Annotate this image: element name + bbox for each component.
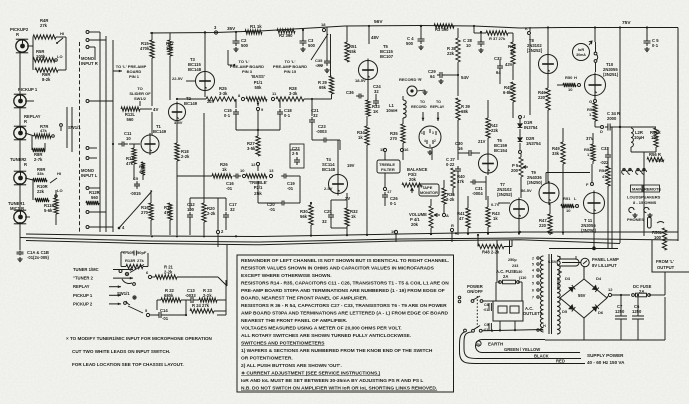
- wire right edge vertical: [677, 28, 679, 242]
- capacitor C31 0004: [470, 181, 473, 183]
- contact 12 dc out: [608, 293, 611, 296]
- wire T3: [204, 33, 206, 71]
- capacitor C2 500: [235, 32, 237, 38]
- from L output box: [652, 240, 689, 272]
- wire bass row: [177, 98, 206, 100]
- speaker terminals MAIN REMOTE: [622, 170, 627, 175]
- pot TREBLE P2/1 25k: [242, 174, 245, 177]
- switch network wires: [150, 314, 156, 316]
- wire speaker feed: [611, 127, 613, 248]
- dashed mono input boundary: [79, 42, 81, 232]
- contact R: [450, 228, 453, 231]
- contact 19: [394, 230, 397, 233]
- box TAPE MONITOR: [419, 184, 439, 196]
- hook shorting link: [594, 52, 597, 55]
- wire diagonal feedback: [119, 191, 152, 228]
- capacitor C3 500: [302, 30, 304, 38]
- wire input network box: [31, 136, 33, 150]
- mono input switch contacts: [86, 31, 89, 34]
- AC outlets box: [493, 301, 523, 321]
- resistor R6R 8-2k: [35, 68, 58, 72]
- contact 5: [146, 313, 149, 316]
- contact 16: [400, 148, 403, 151]
- earth chassis symbol: [476, 341, 481, 346]
- resistor R2 390: [277, 29, 295, 33]
- jack TUNER1/MIC: [14, 211, 26, 223]
- bus junction dots: [151, 235, 153, 237]
- resistor R12L 560: [121, 107, 140, 111]
- wire output junction: [593, 214, 595, 248]
- ground C1: [19, 257, 21, 259]
- box TREBLE FILTER: [377, 160, 400, 173]
- wire ground bus lines: [26, 232, 678, 237]
- contact G: [594, 100, 597, 103]
- contact 17: [383, 187, 386, 190]
- lamp PANEL LAMP 8V LILLIPUT: [581, 258, 589, 266]
- wire mono stubs: [89, 31, 100, 33]
- contact 15: [383, 148, 386, 151]
- resistor R48 2-2k: [477, 235, 479, 247]
- bridge rectifier: [557, 277, 559, 290]
- contact F: [591, 183, 594, 186]
- contact K top: [528, 32, 531, 35]
- capacitor C16 01: [233, 175, 236, 177]
- capacitor C1A C1B: [19, 248, 21, 250]
- jack REPLAY: [14, 127, 26, 139]
- diode D1R IN3754: [519, 116, 522, 119]
- wire bass bottom: [236, 129, 280, 131]
- resistor R8R 2-7k: [32, 148, 45, 152]
- contact 12: [256, 162, 259, 165]
- wire pickup2 network: [27, 45, 33, 47]
- wire left column vertical: [19, 51, 21, 96]
- resistor R37 27k: [473, 26, 475, 33]
- wire bass row to C21: [304, 98, 332, 100]
- wire T1 collector: [151, 58, 153, 106]
- mains leads curves: [476, 340, 581, 353]
- contact 18: [322, 28, 325, 31]
- switch SW1/1 wires: [66, 107, 68, 148]
- wire mono bus verticals: [99, 32, 101, 232]
- jack TUNER2: [14, 172, 26, 184]
- junction 3 contact: [214, 31, 217, 34]
- switch lever 18: [311, 34, 328, 60]
- wire outlets to common: [499, 321, 501, 331]
- transformer windings: [540, 256, 543, 332]
- contact 6: [148, 275, 151, 278]
- wire to L2R R55R: [619, 28, 621, 128]
- resistor R3 390: [434, 24, 454, 28]
- wire T9 to F node: [546, 172, 590, 174]
- contact 2: [216, 230, 219, 233]
- notes box: [237, 255, 454, 392]
- wire long vertical feeds: [151, 33, 153, 40]
- scan noise overlay: [0, 0, 1, 1]
- capacitor C4 500: [420, 25, 422, 27]
- psu bottom rail: [545, 339, 665, 341]
- capacitor C19 01: [281, 175, 284, 177]
- wire output node: [549, 248, 618, 250]
- DIN socket record/replay: [419, 126, 441, 148]
- wire output verticals: [547, 28, 549, 55]
- meter IoR 30mA: [573, 44, 590, 61]
- wire bus to AC fuse: [496, 240, 498, 281]
- wire 75V/56V top supply rail: [150, 26, 678, 34]
- capacitor C5 0-1: [646, 28, 648, 39]
- bridge connections: [562, 262, 581, 264]
- bridge diodes D3 D4 D5 D6: [569, 287, 574, 292]
